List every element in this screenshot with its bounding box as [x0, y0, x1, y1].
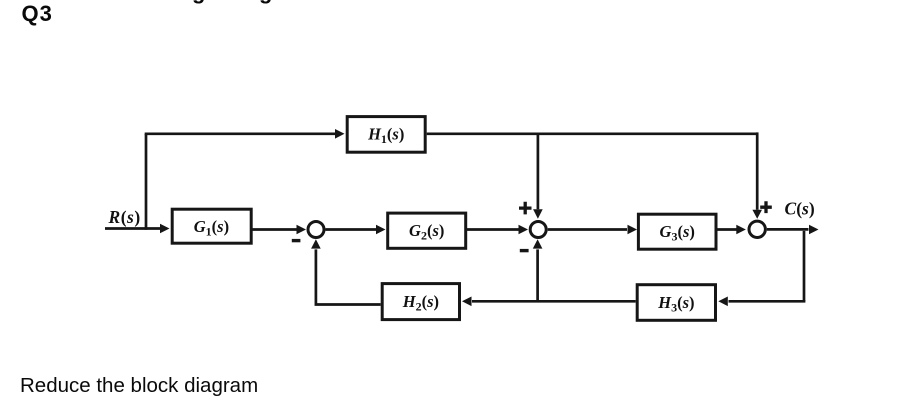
block H1: [347, 117, 425, 153]
wire junction up to S2 bottom: [533, 239, 543, 301]
svg-text:H3(s): H3(s): [657, 293, 694, 315]
wire S3 to output C(s): [767, 225, 819, 235]
minus sign at S1: [292, 239, 301, 242]
wire H2 output to S1 bottom: [311, 239, 381, 304]
plus sign at S2: [519, 202, 532, 215]
svg-text:G2(s): G2(s): [409, 221, 444, 243]
svg-text:G3(s): G3(s): [660, 222, 695, 244]
wire S1 to G2: [326, 225, 386, 235]
wire output takeoff to H3: [718, 297, 805, 307]
wire junction drop to summer S2 top: [533, 134, 543, 219]
svg-text:C(s): C(s): [785, 199, 815, 219]
svg-text:R(s): R(s): [108, 207, 141, 227]
block G3: [638, 214, 716, 249]
summer S2: [530, 222, 546, 238]
summer S3: [749, 221, 765, 237]
cut-off descender g1: [192, 0, 208, 4]
summer S1: [308, 222, 324, 238]
wire S2 to G3: [548, 225, 637, 235]
svg-text:H1(s): H1(s): [367, 125, 404, 147]
svg-text:G1(s): G1(s): [194, 217, 229, 239]
wire G3 to S3: [716, 225, 746, 235]
svg-text:H2(s): H2(s): [402, 292, 439, 314]
caption: Reduce the block diagram: [20, 374, 258, 398]
node takeoff on output, vertical down: [803, 231, 806, 301]
block G2: [388, 213, 466, 248]
minus sign at S2: [520, 249, 529, 252]
label C(s): [785, 199, 815, 219]
wire H3 to H2: [462, 297, 636, 307]
heading Q3: [22, 1, 53, 27]
block H2: [382, 284, 459, 320]
block G1: [172, 209, 251, 243]
wire G1 to S1: [251, 225, 306, 235]
wire H1 output to right corner: [427, 132, 758, 135]
block H3: [637, 285, 715, 321]
wire input R(s) to G1: [105, 224, 170, 234]
wire right corner drop to summer S3 top: [752, 132, 762, 218]
wire takeoff to H1: [145, 129, 345, 139]
plus sign at S3: [760, 201, 772, 213]
label R(s): [108, 207, 141, 227]
cut-off descender g2: [259, 0, 275, 4]
node takeoff after R(s), vertical up: [145, 134, 148, 230]
wire G2 to S2: [466, 225, 528, 235]
